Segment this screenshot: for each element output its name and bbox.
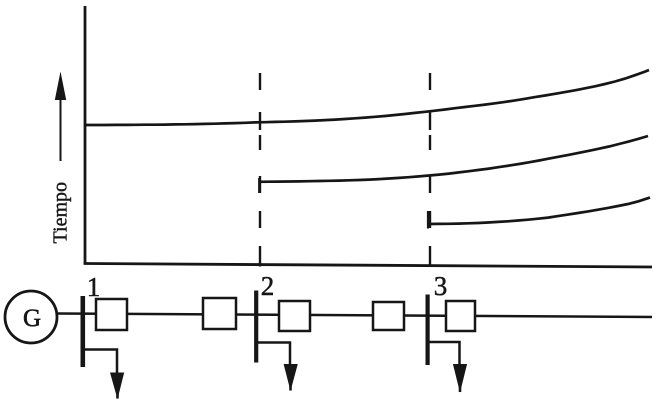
bus 1 bar — [81, 296, 86, 367]
breaker square after bus 1 — [96, 299, 127, 330]
load feeder from bus 1 — [84, 350, 117, 375]
svg-text:G: G — [23, 305, 41, 332]
svg-text:3: 3 — [434, 271, 448, 301]
curve 2 start tick — [258, 178, 260, 193]
curve 3 start tick — [427, 211, 429, 229]
x-axis (distance axis of graph) — [84, 264, 652, 268]
curve 2: relay time curve seen from bus 2 — [259, 136, 648, 182]
curve 1: relay time curve seen from bus 1 — [85, 70, 649, 125]
dashed line at bus 3 position — [429, 73, 431, 267]
load feeder from bus 3 — [429, 342, 460, 366]
Tiempo axis arrow shaft — [60, 96, 62, 161]
generator G circle — [5, 291, 57, 343]
Tiempo axis arrowhead — [55, 72, 66, 101]
curve 3: relay time curve seen from bus 3 — [428, 198, 650, 225]
breaker square after bus 3 — [446, 301, 475, 331]
bus 3 bar — [426, 295, 430, 366]
load arrow at bus 1 — [110, 373, 124, 400]
dashed line at bus 2 position — [259, 73, 261, 267]
load arrow at bus 3 — [453, 364, 467, 393]
load feeder from bus 2 — [257, 343, 290, 367]
svg-text:2: 2 — [261, 271, 275, 301]
bus 2 bar — [254, 291, 258, 363]
svg-text:1: 1 — [87, 272, 101, 302]
main feeder line through breakers — [57, 314, 652, 318]
svg-text:Tiempo: Tiempo — [50, 182, 72, 244]
y-axis (time axis of graph) — [84, 6, 87, 265]
breaker square before bus 3 — [373, 302, 404, 330]
breaker square after bus 2 — [279, 301, 310, 331]
breaker square before bus 2 — [203, 298, 236, 329]
load arrow at bus 2 — [284, 364, 298, 391]
